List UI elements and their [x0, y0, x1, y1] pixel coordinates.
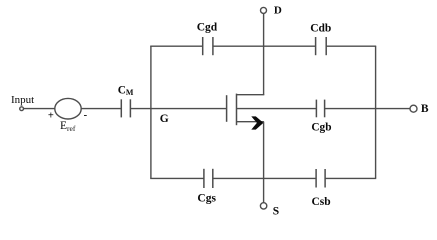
capacitor CM right plate: [129, 99, 131, 117]
capacitor Cgd right plate: [212, 37, 214, 55]
wire left rail: [150, 46, 152, 178]
capacitor Csb right plate: [324, 169, 326, 188]
terminal B: [410, 105, 417, 112]
svg-text:B: B: [421, 103, 429, 115]
transistor Q1 drain lead: [237, 94, 265, 96]
capacitor Cgs right plate: [212, 169, 214, 188]
svg-text:+: +: [48, 110, 54, 121]
transistor Q1 channel bar: [236, 94, 238, 126]
wire top rail right segment: [326, 45, 376, 47]
terminal S: [260, 203, 266, 209]
wire bottom rail middle segment: [213, 177, 316, 179]
capacitor Cdb left plate: [315, 37, 317, 55]
capacitor Cdb right plate: [325, 37, 327, 55]
svg-text:CM: CM: [118, 84, 134, 97]
transistor Q1 source arrow: [251, 116, 263, 129]
svg-text:S: S: [273, 206, 279, 218]
capacitor Cgs left plate: [203, 169, 205, 188]
wire CM to gate: [130, 108, 226, 110]
wire Cgb to terminal B: [325, 108, 410, 110]
wire S vertical: [263, 122, 265, 203]
capacitor Csb left plate: [315, 169, 317, 188]
svg-text:Input: Input: [11, 94, 34, 106]
svg-text:-: -: [84, 110, 88, 121]
wire right rail: [375, 46, 377, 178]
wire G to B line: [237, 108, 317, 110]
transistor Q1 gate bar: [226, 95, 228, 122]
capacitor Cgb left plate: [315, 100, 317, 118]
wire D vertical: [263, 14, 265, 95]
svg-text:Eref: Eref: [60, 120, 76, 133]
svg-text:Cgb: Cgb: [311, 121, 331, 133]
svg-text:Csb: Csb: [312, 196, 331, 208]
transistor Q1 source lead: [237, 121, 264, 123]
terminal D: [261, 7, 267, 13]
wire Eref to CM: [81, 108, 121, 110]
capacitor CM left plate: [120, 99, 122, 117]
svg-text:Cgs: Cgs: [197, 193, 216, 205]
svg-text:D: D: [274, 5, 282, 17]
capacitor Cgb right plate: [324, 100, 326, 118]
svg-text:G: G: [160, 113, 169, 125]
capacitor Cgd left plate: [202, 37, 204, 55]
wire top rail left segment: [150, 45, 203, 47]
wire Input to Eref: [24, 108, 55, 110]
svg-text:Cdb: Cdb: [310, 23, 331, 35]
wire bottom rail left segment: [150, 177, 204, 179]
voltage source Eref: [55, 98, 81, 119]
svg-text:Cgd: Cgd: [197, 22, 218, 34]
terminal Input: [20, 107, 24, 111]
wire top rail middle segment: [213, 45, 316, 47]
wire bottom rail right segment: [325, 177, 376, 179]
